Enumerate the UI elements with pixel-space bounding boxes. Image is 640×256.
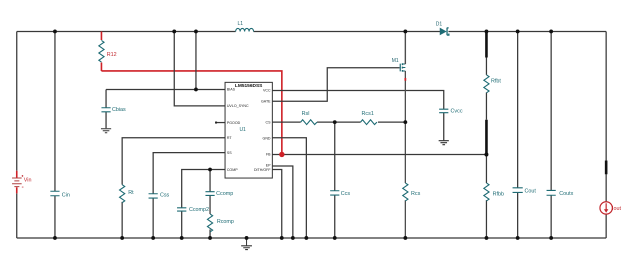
wire DITH/OFF net <box>272 169 281 238</box>
capacitor Cout <box>513 31 537 238</box>
svg-text:Rfbt: Rfbt <box>491 79 501 85</box>
wire GATE net <box>272 68 399 102</box>
resistor Rcomp <box>207 214 233 232</box>
node COMP junction <box>208 168 212 172</box>
wire SS net <box>153 153 225 238</box>
wire RT net <box>122 138 225 238</box>
wire GND pin net <box>272 138 306 238</box>
resistor Rt <box>120 185 135 203</box>
svg-text:Coutx: Coutx <box>559 191 573 197</box>
svg-text:Ccs: Ccs <box>341 191 351 197</box>
svg-text:VCC: VCC <box>263 89 271 93</box>
node FB red junction <box>279 152 284 157</box>
svg-text:R12: R12 <box>107 52 117 58</box>
node bottom rail junctions <box>53 236 553 240</box>
svg-text:Rsl: Rsl <box>302 111 310 117</box>
wire right rail <box>605 31 607 238</box>
pin PGOOD <box>227 121 241 125</box>
capacitor Ccomp <box>205 191 233 197</box>
svg-text:GATE: GATE <box>261 100 271 104</box>
capacitor Ccs <box>330 122 350 238</box>
capacitor Cvcc <box>439 109 463 115</box>
svg-text:Rcs: Rcs <box>411 191 421 197</box>
wire left rail <box>16 31 18 238</box>
capacitor Ccomp2 <box>177 207 209 213</box>
wire EP net <box>272 166 293 238</box>
wire bottom rail (ground net) <box>17 237 606 239</box>
wire UVLO_SYNC net <box>174 31 225 105</box>
wire M1 drain to switch node <box>404 31 406 64</box>
capacitor Coutx <box>547 31 574 238</box>
svg-text:GND: GND <box>263 136 271 140</box>
svg-text:D1: D1 <box>436 21 443 27</box>
pin DITH/OFF <box>254 168 271 172</box>
pin CS <box>266 120 272 124</box>
capacitor Cin <box>50 31 69 238</box>
svg-text:Css: Css <box>160 192 170 198</box>
pin COMP <box>227 168 238 172</box>
svg-text:Rcomp: Rcomp <box>217 219 234 225</box>
svg-text:Rcs1: Rcs1 <box>362 111 374 117</box>
wire VCC net <box>272 90 443 140</box>
ground below Cbias <box>101 129 111 133</box>
capacitor Css <box>149 192 170 198</box>
source Iout <box>600 202 621 214</box>
wire M1 source column <box>404 71 406 238</box>
svg-text:Cin: Cin <box>62 192 70 198</box>
svg-text:M1: M1 <box>392 58 399 64</box>
svg-text:CS: CS <box>266 120 272 124</box>
wire top rail <box>17 30 606 32</box>
svg-text:UVLO_SYNC: UVLO_SYNC <box>227 104 249 108</box>
svg-text:Rt: Rt <box>128 190 134 196</box>
ground mid (below IC) <box>241 238 252 250</box>
capacitor Cbias <box>101 89 126 128</box>
resistor Rcs <box>403 183 421 201</box>
pin UVLO_SYNC <box>227 104 249 108</box>
inductor L1 <box>236 21 254 32</box>
resistor Rsl <box>301 111 317 125</box>
svg-text:U1: U1 <box>239 127 246 133</box>
node top rail junctions <box>53 30 553 34</box>
wire BIAS net <box>106 31 225 89</box>
ground below Cvcc <box>439 141 449 145</box>
resistor Rfbt branch <box>484 31 501 154</box>
svg-text:FB: FB <box>266 153 271 157</box>
wire red net R12 to FB <box>101 71 281 153</box>
svg-text:Cvcc: Cvcc <box>451 109 463 115</box>
svg-text:Cout: Cout <box>525 188 537 194</box>
svg-text:Rfbb: Rfbb <box>493 191 504 197</box>
svg-text:BIAS: BIAS <box>227 88 236 92</box>
svg-text:RT: RT <box>227 136 233 140</box>
svg-text:LM5156DSS: LM5156DSS <box>235 83 263 89</box>
pin GATE <box>261 100 271 104</box>
source Vin <box>12 171 31 194</box>
resistor Rcs1 <box>361 111 377 125</box>
wire CS net <box>272 121 405 123</box>
wire Ccomp branch <box>209 170 211 238</box>
diode D1 (schottky) <box>436 21 449 35</box>
wire COMP net <box>182 170 225 238</box>
pin SS <box>227 151 232 155</box>
node FB-Rfb junction <box>484 152 488 156</box>
svg-text:PGOOD: PGOOD <box>227 121 241 125</box>
svg-text:DITH/OFF: DITH/OFF <box>254 168 271 172</box>
node CS junctions <box>333 120 407 124</box>
svg-text:L1: L1 <box>237 21 243 27</box>
resistor Rfbb branch <box>484 154 504 238</box>
pin stub PGOOD <box>215 122 225 124</box>
pin VCC <box>263 89 271 93</box>
svg-text:Cbias: Cbias <box>112 107 126 113</box>
pin BIAS <box>227 88 236 92</box>
svg-text:SS: SS <box>227 151 232 155</box>
IC U1 LM5156DSS <box>225 82 272 178</box>
pin GND <box>263 136 271 140</box>
svg-text:Ccomp: Ccomp <box>216 191 233 197</box>
pin FB <box>266 153 271 157</box>
wire FB net <box>272 153 486 155</box>
pin RT <box>227 136 233 140</box>
svg-text:COMP: COMP <box>227 168 238 172</box>
node BIAS junction <box>194 88 198 92</box>
svg-text:Ccomp2: Ccomp2 <box>189 207 209 213</box>
svg-text:Vin: Vin <box>24 177 32 183</box>
pin EP <box>266 164 271 168</box>
transistor M1 <box>392 58 406 72</box>
resistor R12 <box>99 31 117 70</box>
svg-text:Iout: Iout <box>612 206 621 212</box>
